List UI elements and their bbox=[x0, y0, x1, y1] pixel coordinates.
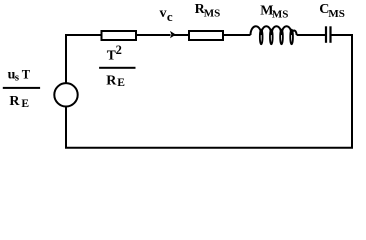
inductor M_MS coil humps bbox=[251, 26, 297, 35]
svg-text:v: v bbox=[160, 6, 167, 21]
wire: right vertical bbox=[351, 35, 353, 148]
wire: left vertical + top-left horizontal bbox=[66, 35, 101, 83]
arrowhead v_c current direction bbox=[170, 31, 176, 38]
svg-text:MS: MS bbox=[328, 8, 345, 20]
svg-text:2: 2 bbox=[116, 43, 122, 57]
capacitor C_MS left plate bbox=[325, 26, 327, 43]
inductor M_MS loop 2 bbox=[270, 30, 273, 45]
capacitor C_MS right plate bbox=[329, 26, 331, 43]
svg-text:MS: MS bbox=[204, 7, 221, 19]
wire: bottom horizontal bbox=[65, 147, 353, 149]
wire: arrow to R_MS bbox=[174, 34, 189, 36]
svg-text:s: s bbox=[15, 72, 20, 84]
wire: between block and arrow bbox=[137, 34, 171, 36]
svg-text:T: T bbox=[107, 47, 116, 62]
voltage source U (circle) bbox=[54, 83, 77, 106]
inductor M_MS loop 4 bbox=[290, 30, 293, 45]
inductor M_MS loop 1 bbox=[260, 30, 263, 45]
svg-text:E: E bbox=[21, 98, 29, 110]
resistor R_MS (rectangle) bbox=[189, 31, 223, 40]
svg-text:E: E bbox=[117, 77, 125, 89]
wire: left vertical below source bbox=[65, 107, 67, 148]
svg-text:T: T bbox=[22, 68, 31, 82]
svg-text:c: c bbox=[167, 9, 173, 24]
impedance block T^2/R_E (rectangle) bbox=[102, 31, 137, 40]
inductor M_MS loop 3 bbox=[280, 30, 283, 45]
wire: capacitor to top-right corner bbox=[332, 34, 354, 36]
svg-text:MS: MS bbox=[272, 8, 289, 20]
svg-text:R: R bbox=[106, 74, 117, 89]
wire: R_MS to inductor bbox=[223, 34, 251, 36]
fraction bar u_s T / R_E bbox=[3, 87, 40, 89]
svg-text:R: R bbox=[9, 94, 20, 109]
wire: inductor to capacitor bbox=[297, 34, 325, 36]
fraction bar T^2 / R_E bbox=[99, 67, 135, 69]
